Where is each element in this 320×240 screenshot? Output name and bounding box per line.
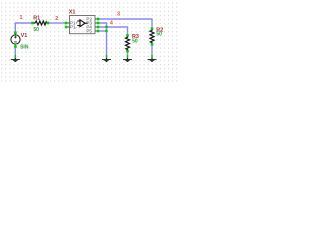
junction at P5 rail (105, 30, 107, 32)
svg-text:X1: X1 (69, 10, 76, 16)
wire V1 to ground (14, 48, 16, 55)
svg-text:3: 3 (117, 12, 120, 18)
resistor R1 (31, 21, 49, 25)
ground (below R2) (148, 55, 157, 62)
svg-text:SIN: SIN (20, 45, 29, 51)
wire node3 P2 to R2 (99, 19, 152, 27)
junction at P4 rail (105, 26, 107, 28)
pin P4 (95, 26, 97, 28)
svg-text:4: 4 (110, 21, 113, 27)
pin P1+ (67, 22, 69, 24)
svg-text:50: 50 (132, 38, 138, 44)
resistor R3 (126, 34, 130, 52)
resistor R2 (150, 27, 154, 45)
op-amp subcircuit X1 (65, 16, 100, 34)
pin P5 (95, 30, 97, 32)
ground (below V1) (11, 55, 20, 62)
svg-text:V1: V1 (21, 33, 28, 39)
wire node1 horizontal V1 to R1 (15, 23, 31, 32)
svg-text:50: 50 (33, 27, 39, 33)
pin P2 (95, 18, 97, 20)
wire node4 P4 to R3 (99, 27, 127, 34)
svg-text:1: 1 (20, 15, 23, 21)
wire P5 stub (99, 30, 105, 32)
ground (below X1) (102, 55, 111, 62)
svg-text:P1-: P1- (70, 24, 78, 29)
pin P3 (95, 22, 97, 24)
svg-text:2: 2 (55, 16, 58, 22)
ground (below R3) (123, 55, 132, 62)
svg-text:50: 50 (156, 31, 162, 37)
wire P3 down to ground (99, 23, 106, 55)
voltage source V1 (11, 31, 20, 47)
svg-text:P5: P5 (86, 29, 92, 34)
wire node2 R1 to X1 (49, 22, 65, 24)
pin P1- (67, 26, 69, 28)
op-amp triangle symbol (77, 20, 88, 27)
svg-text:R1: R1 (33, 16, 40, 22)
wire R2 to ground (151, 46, 153, 55)
wire R3 to ground (127, 52, 129, 55)
